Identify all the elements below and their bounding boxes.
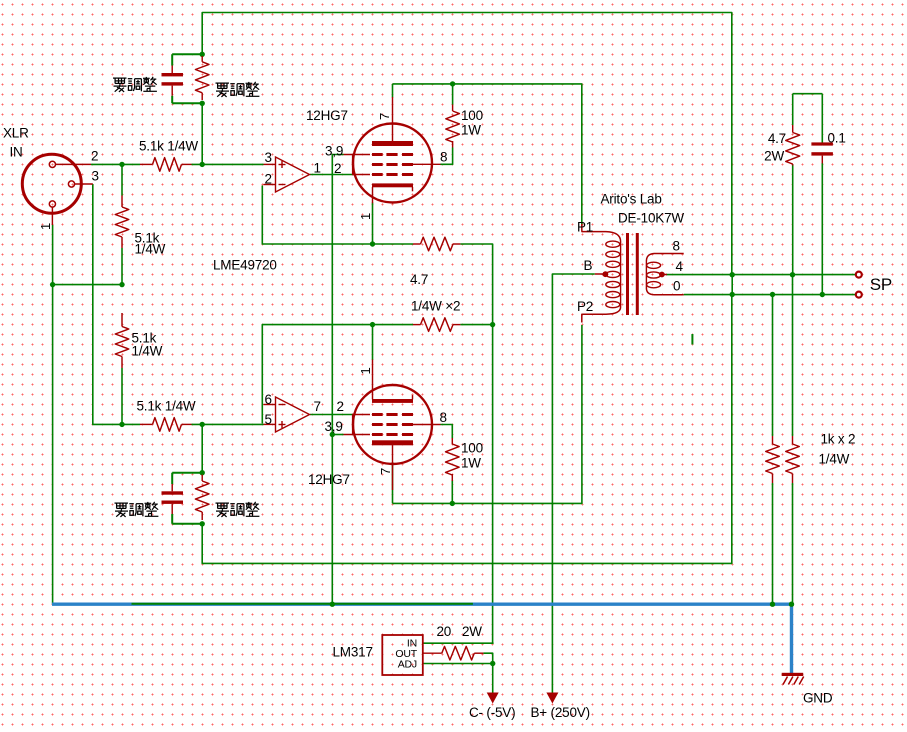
- wire RC2 bottom down and right to right column: [202, 296, 732, 564]
- label V1 pin 7: [377, 113, 392, 120]
- junction SP- CZ: [820, 292, 825, 297]
- node tap-4 dot: [659, 272, 665, 278]
- wire SP+ down to RL2: [792, 275, 794, 436]
- label T1 B: [584, 258, 593, 273]
- label V1 12HG7: [306, 108, 348, 123]
- wire CZ bottom to SP- line: [821, 163, 823, 296]
- junction R7 plate rail: [450, 501, 455, 506]
- label R9 20: [437, 624, 452, 639]
- junction bus RL1: [770, 602, 775, 607]
- label U1A pin 2: [265, 172, 272, 187]
- resistor R4 5.1k 1/4W vertical: [115, 313, 162, 368]
- label V1 pin 3,9: [325, 144, 343, 159]
- svg-text:2W: 2W: [462, 624, 482, 639]
- label T1 P2: [577, 299, 593, 314]
- wire op-amp U2 out to tube2 grid: [310, 414, 353, 416]
- svg-text:1: 1: [358, 213, 373, 220]
- label C2 trim: [115, 502, 159, 517]
- resistor R9 20 2W: [442, 646, 484, 660]
- svg-text:SP: SP: [870, 275, 892, 294]
- junction crossover left: [50, 282, 55, 287]
- wire op-amp U2 -in feedback loop: [262, 325, 413, 424]
- ground bus horizontal: [52, 603, 792, 606]
- svg-text:P2: P2: [577, 299, 593, 314]
- label R9 2W: [462, 624, 482, 639]
- label U2 LM317: [333, 645, 373, 660]
- label T1 sec 8: [673, 239, 680, 254]
- svg-text:IN: IN: [10, 145, 23, 160]
- tube V1 12HG7: [344, 97, 441, 203]
- svg-text:0.1: 0.1: [828, 131, 846, 146]
- svg-text:7: 7: [378, 468, 393, 475]
- label J1 pin 2: [91, 149, 98, 164]
- wire SP+ to SP- tie: [731, 275, 733, 295]
- wire LM317 IN up the feedback column: [423, 642, 494, 644]
- junction RC1 top: [200, 52, 205, 57]
- junction RC1 bottom: [200, 101, 205, 106]
- wire tube2 plate lead lower: [392, 462, 394, 503]
- svg-text:1: 1: [358, 367, 373, 374]
- wire RL1 bottom to ground bus: [772, 483, 774, 604]
- label R8 trim: [216, 502, 260, 517]
- junction SP- RL1: [770, 292, 775, 297]
- tube V2 12HG7: [344, 360, 441, 491]
- wire CZ top lead: [821, 94, 823, 143]
- wire XLR pin1 down to ground bus: [52, 225, 54, 604]
- svg-text:4: 4: [676, 259, 684, 274]
- svg-text:1/4W: 1/4W: [819, 452, 850, 467]
- svg-text:1W: 1W: [461, 123, 481, 138]
- svg-text:2: 2: [334, 161, 341, 176]
- wire RC1 node down to input node: [201, 103, 203, 165]
- label U1B pin 7: [314, 399, 321, 414]
- svg-text:1: 1: [314, 161, 321, 176]
- wire R4 chain to lower op-amp node: [121, 368, 123, 425]
- label U1B pin 6: [265, 392, 272, 407]
- svg-text:LM317: LM317: [333, 645, 373, 660]
- label C- (-5V): [469, 705, 515, 720]
- svg-text:3,9: 3,9: [325, 419, 343, 434]
- svg-text:2: 2: [337, 399, 344, 414]
- wire R6 top to plate rail: [452, 83, 454, 105]
- wire tube1 grid tie to tube2 grid tie column: [332, 155, 343, 605]
- wire R2 out to op-amp U1 +in: [192, 163, 264, 165]
- svg-text:7: 7: [314, 399, 321, 414]
- wire RF2 right lead to feedback column: [460, 324, 493, 326]
- label J1 pin 1: [38, 223, 53, 230]
- svg-text:5.1k 1/4W: 5.1k 1/4W: [137, 399, 196, 414]
- wire input node to R3 top: [121, 164, 123, 195]
- svg-text:GND: GND: [803, 691, 833, 706]
- resistor RF1 4.7 1/4W: [413, 237, 460, 251]
- resistor RL2 1k 1/4W: [786, 436, 800, 483]
- label T1 sec 0: [673, 279, 680, 294]
- label V1 pin 2: [334, 161, 341, 176]
- resistor RF2 4.7 1/4W: [413, 318, 460, 332]
- junction bus grid tie: [330, 602, 335, 607]
- junction SP- right column: [730, 292, 735, 297]
- resistor R1 trim (top): [195, 56, 209, 100]
- wire SP- down to RL1: [772, 295, 774, 437]
- label U1A pin 3: [265, 150, 272, 165]
- svg-text:4.7: 4.7: [410, 272, 428, 287]
- svg-text:1k x 2: 1k x 2: [821, 432, 856, 447]
- wire transformer tap 4 to SP+: [666, 274, 856, 276]
- svg-text:P1: P1: [577, 220, 593, 235]
- wire RZ top lead: [792, 94, 794, 125]
- label V1 pin 1: [358, 213, 373, 220]
- wire tube2 cathode to feedback rail: [372, 326, 374, 360]
- label V2 pin 7: [378, 468, 393, 475]
- svg-text:2: 2: [265, 172, 272, 187]
- wire stub below transformer: [691, 334, 693, 345]
- connector J1 XLR IN: [3, 126, 93, 226]
- wire R3 bottom to crossover node: [121, 248, 123, 286]
- junction RC2 upper: [200, 470, 205, 475]
- wire op-amp U1 out to tube1 grid: [310, 174, 353, 176]
- resistor R7 100 1W: [446, 438, 483, 481]
- label RF 4.7: [410, 272, 428, 287]
- label J1 pin 3: [92, 169, 99, 184]
- svg-text:3,9: 3,9: [325, 144, 343, 159]
- capacitor C2 trim (bottom): [162, 473, 203, 524]
- junction RC1 to input: [200, 162, 205, 167]
- wire tube2 pin8 to R7: [441, 425, 453, 439]
- label T1 DE-10K7W: [618, 211, 684, 226]
- svg-text:Arito's Lab: Arito's Lab: [601, 192, 662, 207]
- resistor R5 5.1k 1/4W horizontal: [137, 399, 196, 432]
- label RL 1/4W: [819, 452, 850, 467]
- wire zobel top connector: [793, 93, 823, 95]
- svg-text:8: 8: [673, 239, 680, 254]
- svg-text:20: 20: [437, 624, 452, 639]
- wire tube1 plate to P1 top rail: [393, 84, 582, 224]
- wire ADJ node down to C- arrow: [492, 664, 494, 694]
- svg-text:100: 100: [461, 108, 483, 123]
- wire transformer tap 0 to SP-: [684, 294, 856, 296]
- label SP: [870, 275, 892, 294]
- junction input node L: [119, 162, 124, 167]
- label U1 LME49720: [213, 258, 277, 273]
- op-amp U1A LME49720: [264, 157, 310, 192]
- label R1 trim: [216, 82, 260, 97]
- svg-text:LME49720: LME49720: [213, 258, 277, 273]
- svg-text:2: 2: [91, 149, 98, 164]
- svg-text:12HG7: 12HG7: [308, 472, 350, 487]
- resistor R6 100 1W: [446, 105, 483, 148]
- junction lower divider: [119, 422, 124, 427]
- terminal SP-: [856, 292, 862, 298]
- wire tube1 pin8 to R6: [441, 148, 453, 165]
- wire top feedback from RC1 to right column: [202, 13, 732, 275]
- svg-text:DE-10K7W: DE-10K7W: [618, 211, 684, 226]
- regulator U2 LM317: [382, 635, 442, 675]
- svg-text:1/4W ×2: 1/4W ×2: [411, 299, 460, 314]
- wire LM317 OUT node down: [483, 653, 492, 663]
- label U1B pin 5: [265, 412, 272, 427]
- terminal SP+: [856, 272, 862, 278]
- resistor RZ 4.7 2W: [764, 125, 800, 166]
- svg-text:3: 3: [265, 150, 272, 165]
- label U1A pin 1: [314, 161, 321, 176]
- wire R7 bottom to tube2 plate rail: [451, 480, 453, 504]
- power C- arrow: [487, 693, 499, 704]
- label B+ (250V): [531, 705, 590, 720]
- junction tube2 grid tie: [330, 432, 335, 437]
- label V2 pin 3,9: [325, 419, 343, 434]
- ground bus drop to GND: [790, 604, 793, 673]
- svg-text:1/4W: 1/4W: [135, 242, 166, 257]
- wire RF1 to right feedback column: [460, 244, 492, 643]
- junction tube1 cathode node: [370, 241, 375, 246]
- junction feedback column: [490, 322, 495, 327]
- svg-text:5: 5: [265, 412, 272, 427]
- wire XLR pin2 to R2 node: [91, 163, 140, 165]
- label T1 sec 4: [676, 259, 684, 274]
- svg-text:1: 1: [38, 223, 53, 230]
- capacitor C1 trim (top): [162, 54, 203, 103]
- wire overlay on ground bus: [132, 603, 473, 605]
- svg-text:ADJ: ADJ: [398, 658, 417, 670]
- svg-text:3: 3: [92, 169, 99, 184]
- wire crossover horizontal: [52, 284, 123, 286]
- svg-text:5.1k 1/4W: 5.1k 1/4W: [139, 139, 198, 154]
- label GND: [803, 691, 833, 706]
- wire XLR pin3 down and right to R5: [93, 184, 140, 424]
- label V2 pin 2: [337, 399, 344, 414]
- resistor RL1 1k 1/4W: [766, 436, 780, 483]
- transformer T1 DE-10K7W: [582, 224, 684, 323]
- junction RC2 top node: [200, 422, 205, 427]
- svg-text:2W: 2W: [764, 149, 784, 164]
- wire B+ supply to transformer B tap: [552, 274, 594, 693]
- svg-text:XLR: XLR: [3, 126, 29, 141]
- label RL 1k x 2: [821, 432, 856, 447]
- wire op-amp U1 -in feedback loop: [262, 186, 413, 245]
- junction crossover right: [119, 282, 124, 287]
- resistor R3 5.1k 1/4W vertical: [115, 196, 165, 257]
- junction SP+ zobel: [790, 272, 795, 277]
- svg-text:1/4W: 1/4W: [132, 344, 163, 359]
- wire node down to RC2: [201, 424, 203, 473]
- svg-text:4.7: 4.7: [768, 131, 786, 146]
- svg-text:1W: 1W: [461, 456, 481, 471]
- svg-text:8: 8: [440, 410, 447, 425]
- wire RL2 bottom to ground bus: [792, 483, 794, 604]
- node B tap dot: [603, 271, 609, 277]
- junction R6 plate rail: [450, 81, 455, 86]
- junction bus RL2: [789, 602, 794, 607]
- svg-text:6: 6: [265, 392, 272, 407]
- svg-text:B: B: [584, 258, 593, 273]
- svg-text:B+ (250V): B+ (250V): [531, 705, 590, 720]
- label RF 1/4W x2: [411, 299, 460, 314]
- resistor R8 trim (bottom): [195, 475, 209, 521]
- label C1 trim: [113, 77, 157, 92]
- svg-text:0: 0: [673, 279, 680, 294]
- junction RC2 lower: [200, 521, 205, 526]
- wire RZ bottom to SP+ line: [792, 165, 794, 276]
- wire tube1 plate lead upper: [392, 84, 394, 98]
- wire tube2 grid tie: [332, 434, 343, 436]
- svg-text:100: 100: [461, 441, 483, 456]
- resistor R2 5.1k 1/4W horizontal: [139, 139, 198, 172]
- svg-text:12HG7: 12HG7: [306, 108, 348, 123]
- op-amp U1B LME49720: [264, 397, 310, 432]
- power B+ arrow: [546, 693, 558, 704]
- junction SP+ right column: [730, 272, 735, 277]
- svg-text:7: 7: [377, 113, 392, 120]
- wire R5 out to op-amp U2 +in: [192, 423, 264, 425]
- label V2 pin 8: [440, 410, 447, 425]
- ground symbol: [782, 673, 804, 685]
- wire tube2 plate to transformer P2: [393, 325, 582, 503]
- wire LM317 ADJ to node: [423, 663, 493, 665]
- junction LM317 ADJ node: [490, 661, 495, 666]
- label V2 pin 1: [358, 367, 373, 374]
- label V1 pin 8: [440, 150, 447, 165]
- junction tube2 cathode node: [370, 322, 375, 327]
- label V2 12HG7: [308, 472, 350, 487]
- svg-text:8: 8: [440, 150, 447, 165]
- capacitor CZ 0.1: [811, 131, 845, 164]
- label T1 Arito's Lab: [601, 192, 662, 207]
- label T1 P1: [577, 220, 593, 235]
- svg-text:C- (-5V): C- (-5V): [469, 705, 515, 720]
- wire tube1 cathode to feedback rail: [372, 203, 374, 246]
